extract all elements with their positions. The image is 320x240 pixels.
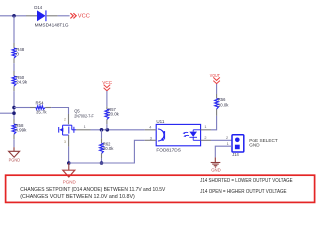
annotation box [6,175,315,202]
svg-text:4: 4 [149,125,151,129]
resistor R50 zigzag [12,76,16,86]
wire R50 down to node [13,91,15,119]
wire R54 to Q5 gate corner [51,108,68,115]
resistor R57 zigzag [105,109,109,119]
optocoupler U11 pin 1 lead [201,129,211,131]
wire J14 pin1 to GND [215,146,232,157]
resistor R50 bottom pin [13,86,15,91]
wire horizontal from left edge to D14 [0,15,26,17]
wire R62 to rail [101,158,103,163]
svg-text:VCC: VCC [78,14,90,20]
transistor Q5 gate pin [68,114,70,124]
node junction at (14,16) [12,14,16,18]
optocoupler U11 pin 2 lead [201,139,211,141]
power port VCC mid chevrons [104,85,111,91]
resistor R62 zigzag [100,143,104,153]
wire node to R54 [14,107,30,109]
diode D14 cathode bar [45,10,47,21]
optocoupler U11 pin 3 lead [145,139,157,141]
wire D14 to VCC port [58,15,70,17]
resistor R58 bottom pin [13,134,15,139]
resistor R48 bottom pin [13,58,15,63]
transistor Q5 source pin [68,135,70,147]
wire bottom rail to riser up to U11 pin3 [69,140,145,163]
resistor R58 zigzag [12,124,16,134]
resistor R48 zigzag [12,48,16,58]
svg-text:CHANGES SETPOINT (D14 ANODE) B: CHANGES SETPOINT (D14 ANODE) BETWEEN 11.… [20,187,165,193]
optocoupler U11 phototransistor [158,129,165,141]
ground PGND bottom stem [68,163,70,170]
ground GND bars [211,163,221,168]
power port VCC top-left chevrons [70,13,76,18]
svg-text:1: 1 [204,125,206,129]
resistor R62 top pin [101,138,103,143]
wire Q5 source to rail [68,147,70,163]
node junction rail at Q5 source [67,161,71,165]
transistor Q5 symbol [59,125,76,135]
optocoupler U11 pin 4 lead [145,129,157,131]
svg-text:D14: D14 [34,5,42,11]
wire R56 to VOUT port [216,83,218,94]
wire VCC to R57 [106,91,108,106]
svg-text:2: 2 [226,136,228,140]
wire node down to R62 [101,130,103,139]
wire U11 pin2 to J14 [211,139,232,141]
diode D14 body [37,10,46,21]
ground PGND left stem [13,147,15,151]
transistor Q5 drain pin [76,129,91,131]
diode D14 anode pin [26,15,37,17]
svg-text:VOUT: VOUT [210,73,220,78]
resistor R62 bottom pin [101,154,103,159]
resistor R54 zigzag [36,106,45,109]
wire U11 pin1 up to R56 [211,116,217,130]
node junction left feed (14,113) [12,111,16,115]
wire left rail top segment [13,16,15,43]
resistor R57 top pin [106,106,108,109]
svg-text:35.7k: 35.7k [36,110,47,116]
svg-text:GND: GND [249,142,260,147]
resistor R58 top pin [13,119,15,124]
svg-text:MMSD4148T1G: MMSD4148T1G [35,23,69,29]
svg-text:24.9k: 24.9k [16,79,28,85]
node junction R54 tap (14,107.5) [12,106,16,110]
svg-text:FOD817DS: FOD817DS [156,147,181,153]
svg-text:3: 3 [64,140,66,144]
svg-text:20.0k: 20.0k [103,146,114,152]
svg-text:R54: R54 [36,100,44,106]
svg-text:R56: R56 [218,97,226,103]
wire R58 to PGND [13,139,15,147]
wire R48 to R50 [13,63,15,71]
svg-text:1: 1 [84,125,86,129]
svg-text:PGND: PGND [63,180,77,185]
svg-text:0: 0 [16,51,19,57]
svg-text:(CHANGES VOUT BETWEEN 12.0V an: (CHANGES VOUT BETWEEN 12.0V and 10.8V) [20,194,135,200]
svg-text:4.99k: 4.99k [15,127,27,133]
diode D14 cathode pin [47,15,58,17]
wire R57 to node [106,124,108,130]
resistor R48 top pin [13,43,15,48]
resistor R57 bottom pin [106,120,108,125]
resistor R54 left pin [30,107,36,109]
svg-text:J14 SHORTED = LOWER OUTPUT VOL: J14 SHORTED = LOWER OUTPUT VOLTAGE [200,178,293,184]
optocoupler U11 LED [192,130,194,132]
svg-text:2: 2 [204,136,206,140]
wire drain node to U11 pin4 [91,129,145,131]
optocoupler U11 package outline [156,124,200,145]
optocoupler U11 light arrows [184,132,189,136]
connector J14 outline [232,135,244,152]
svg-text:10.0k: 10.0k [218,102,229,108]
ground PGND bottom triangle [63,170,75,177]
resistor R50 top pin [13,71,15,76]
resistor R54 right pin [45,107,51,109]
svg-text:20.0k: 20.0k [108,111,119,117]
resistor R56 bottom pin [216,109,218,116]
node junction R62 tap (101.5,130) [100,128,104,132]
ground PGND left triangle [9,151,20,157]
svg-text:U11: U11 [156,119,164,125]
resistor R56 top pin [216,94,218,98]
node junction R57 tap (107.5,130) [106,128,110,132]
svg-text:J14 OPEN = HIGHER OUTPUT VOLTA: J14 OPEN = HIGHER OUTPUT VOLTAGE [200,189,287,195]
ground GND stem [214,157,216,162]
connector J14 pin 2 circle [235,138,240,143]
svg-text:1: 1 [227,142,229,146]
power port VOUT chevrons [213,77,220,83]
svg-text:GND: GND [211,168,221,173]
connector J14 pin 1 square [235,145,240,150]
wire from left edge y=113 [0,112,14,114]
node junction rail at R62 [100,161,104,165]
svg-text:2N7002-7-F: 2N7002-7-F [74,113,94,119]
svg-text:2: 2 [64,118,66,122]
svg-text:PGND: PGND [9,158,21,163]
resistor R56 zigzag [215,98,219,109]
svg-text:J14: J14 [232,152,239,158]
